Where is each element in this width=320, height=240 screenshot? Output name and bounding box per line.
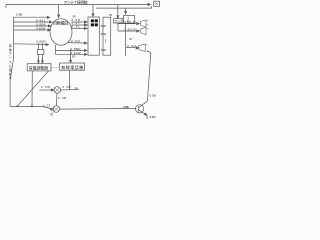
wire w5 lower bbox=[14, 43, 46, 46]
wire amp down with speaker branches bbox=[117, 23, 119, 31]
junction dots on w5 bbox=[38, 43, 40, 45]
speaker B bbox=[140, 28, 146, 35]
wire arrow into plug bbox=[148, 3, 151, 5]
wires connector to box1 bbox=[38, 55, 42, 61]
svg-text:0.5B: 0.5B bbox=[150, 93, 156, 97]
svg-text:2P: 2P bbox=[129, 38, 132, 41]
wire into circle1 left bbox=[40, 89, 52, 91]
svg-text:50Ω: 50Ω bbox=[101, 48, 106, 52]
wire drop to amp box bbox=[117, 5, 119, 16]
node left bus bbox=[10, 17, 43, 106]
wire drop to main unit bbox=[58, 5, 60, 15]
main unit ellipse bbox=[50, 19, 72, 46]
svg-text:+: + bbox=[147, 19, 149, 23]
wire drop from second line to speaker box bbox=[125, 8, 127, 11]
box tall 2 bbox=[103, 17, 111, 55]
svg-text:0.85R: 0.85R bbox=[36, 39, 46, 43]
speaker A bbox=[140, 20, 146, 27]
svg-text:0.5G: 0.5G bbox=[127, 44, 136, 48]
svg-text:0.5L: 0.5L bbox=[72, 25, 81, 29]
wire box2 bottom down bbox=[70, 70, 79, 90]
lamp circle1 bbox=[54, 87, 61, 94]
wire bus to circle2 w/ arrow bbox=[43, 107, 51, 109]
connector top-right plug bbox=[154, 1, 160, 6]
wire w3 bbox=[14, 25, 49, 27]
amp box bbox=[114, 19, 124, 23]
wire circle2 to transistor bbox=[60, 107, 137, 110]
svg-text:50Ω: 50Ω bbox=[101, 24, 106, 28]
svg-text:自動電話: 自動電話 bbox=[53, 19, 69, 26]
svg-text:無線電話機: 無線電話機 bbox=[61, 64, 83, 70]
wire emitter down bbox=[146, 115, 148, 119]
wire r2 bbox=[55, 49, 84, 51]
svg-text:0.5G-R: 0.5G-R bbox=[125, 28, 136, 32]
svg-text:2P: 2P bbox=[72, 55, 76, 59]
wire w2 bbox=[14, 21, 50, 23]
ground stub circle2 bbox=[50, 112, 55, 116]
svg-text:6P: 6P bbox=[109, 14, 112, 17]
transistor bbox=[136, 105, 144, 113]
speaker C bbox=[139, 44, 146, 52]
dashed link box1-box2 bbox=[52, 66, 60, 68]
svg-text:1.25B: 1.25B bbox=[123, 105, 129, 109]
box tall 1 bbox=[88, 17, 99, 55]
vertical text label left bbox=[9, 43, 12, 80]
wire r1 from ellipse right bbox=[68, 42, 84, 44]
wire below speaker box down bbox=[125, 23, 127, 56]
wire collector up bbox=[146, 51, 150, 102]
wire top bus bbox=[6, 5, 151, 9]
wire w4 bbox=[14, 29, 48, 31]
wire r3 bbox=[55, 53, 84, 55]
wire to speaker A bbox=[118, 23, 136, 25]
connector 2P small box bbox=[37, 50, 44, 55]
svg-text:0.5B: 0.5B bbox=[63, 85, 71, 89]
wire to speaker C bbox=[126, 47, 136, 49]
wire diagonal box1 to bottom bus bbox=[17, 71, 48, 106]
svg-text:音量調整器: 音量調整器 bbox=[29, 65, 48, 71]
svg-text:3P: 3P bbox=[75, 86, 78, 90]
wire box1 down bbox=[31, 71, 33, 106]
svg-text:1.25: 1.25 bbox=[43, 103, 50, 107]
wire into box2 top bbox=[70, 50, 72, 59]
wire drop to box1 bbox=[92, 5, 94, 14]
svg-text:1.5B: 1.5B bbox=[16, 13, 22, 17]
svg-text:+: + bbox=[146, 42, 148, 46]
svg-text:す: す bbox=[9, 75, 12, 80]
wire circle1 right bbox=[61, 89, 70, 91]
svg-text:0.5B: 0.5B bbox=[58, 96, 66, 100]
svg-text:0.85W: 0.85W bbox=[36, 26, 46, 30]
lamp circle2 bbox=[53, 106, 60, 113]
ellipse upper wires to box1tall bbox=[72, 21, 84, 23]
box2 handset box bbox=[60, 63, 85, 70]
wire ellipse bottom vertical bbox=[54, 45, 56, 55]
svg-text:+: + bbox=[147, 26, 149, 30]
svg-text:0.5W: 0.5W bbox=[150, 115, 156, 119]
wire to speaker B bbox=[118, 30, 136, 32]
svg-text:ピ: ピ bbox=[127, 19, 130, 24]
speaker connector box (vertical text) bbox=[124, 16, 135, 24]
wire w1 top-left bbox=[14, 16, 47, 18]
svg-text:0.5W: 0.5W bbox=[41, 85, 50, 89]
wire circle1 to circle2 bbox=[55, 93, 58, 105]
box1 control box bbox=[27, 64, 51, 71]
svg-text:50Ω: 50Ω bbox=[101, 32, 106, 36]
wire second top line bbox=[96, 6, 152, 8]
svg-text:0.5G: 0.5G bbox=[71, 39, 81, 43]
svg-text:アンプ: アンプ bbox=[114, 18, 123, 23]
